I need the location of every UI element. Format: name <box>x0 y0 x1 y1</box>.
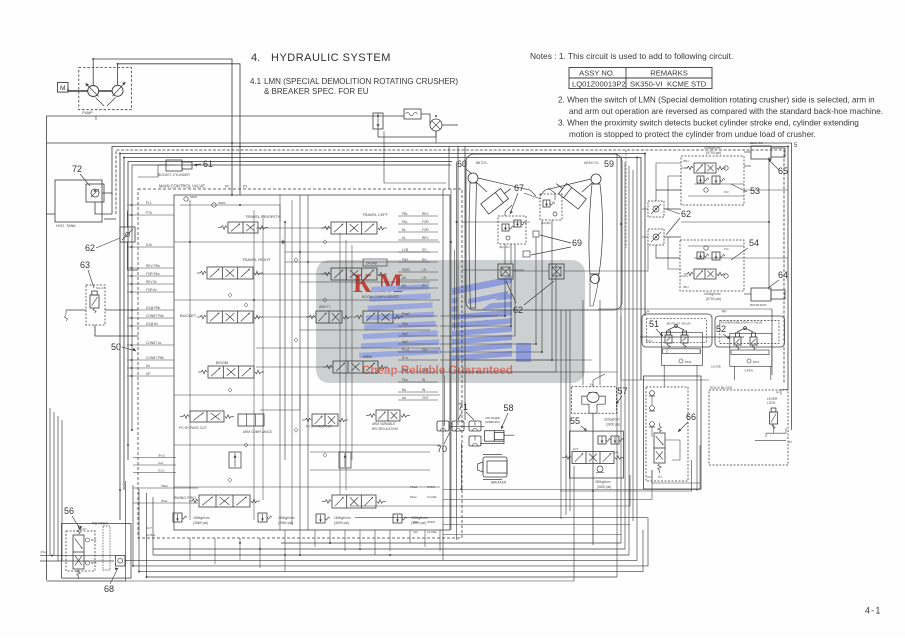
wire bottom bus group B <box>126 560 638 562</box>
svg-text:69: 69 <box>572 238 582 248</box>
valve swing spool DR34B <box>363 259 387 266</box>
svg-text:68: 68 <box>104 584 114 594</box>
svg-text:LH: LH <box>422 268 427 272</box>
solenoid block SOL/V <box>709 390 788 465</box>
svg-text:51: 51 <box>649 319 659 329</box>
svg-text:(Tu1): (Tu1) <box>158 469 165 473</box>
wire linkage cross braces <box>478 178 536 196</box>
valve crusher service spool <box>332 495 376 508</box>
svg-text:(A) Bu1: (A) Bu1 <box>146 533 156 537</box>
wire pump tank tick <box>95 116 97 120</box>
crusher pilot valve 52 outer <box>715 316 785 347</box>
svg-text:62: 62 <box>513 305 523 315</box>
svg-text:55: 55 <box>570 416 580 426</box>
spool valve in 55 <box>572 452 614 464</box>
svg-text:(5700 psi): (5700 psi) <box>706 297 721 301</box>
boom cylinder rod side 64 <box>751 288 771 301</box>
port check BC1 <box>86 538 90 542</box>
jib pilot valve 51 outer <box>642 314 712 347</box>
svg-text:3. When the proximity switch d: 3. When the proximity switch detects buc… <box>558 119 859 128</box>
wire 62 to bus <box>127 211 130 227</box>
svg-text:67: 67 <box>514 183 524 193</box>
svg-text:(P): (P) <box>788 440 792 444</box>
svg-text:SK350-VI: SK350-VI <box>630 79 663 88</box>
svg-text:350kgf/cm²: 350kgf/cm² <box>595 480 611 484</box>
svg-text:P4: P4 <box>658 475 662 479</box>
svg-text:AL: AL <box>402 236 406 240</box>
wire lines 53 54 to boom ports <box>744 189 788 191</box>
svg-text:ASSY NO.: ASSY NO. <box>579 69 615 78</box>
svg-text:(PA1): (PA1) <box>41 551 47 554</box>
svg-text:FOR Ar: FOR Ar <box>146 288 158 292</box>
svg-text:RH: RH <box>722 310 727 314</box>
gear pump 57 motor symbol <box>582 393 605 414</box>
holding valve block 67 right <box>540 194 562 220</box>
callout 60 leader <box>466 169 472 174</box>
svg-text:Aa2: Aa2 <box>402 332 408 336</box>
pilot valve 62 right lower <box>648 229 664 245</box>
svg-text:ARM CYL.: ARM CYL. <box>584 161 600 165</box>
svg-text:54: 54 <box>749 238 759 248</box>
hose fitting 69b <box>523 251 530 257</box>
svg-text:60: 60 <box>457 159 467 169</box>
svg-text:PAa2: PAa2 <box>410 495 417 499</box>
watermark building logo <box>371 284 429 292</box>
svg-text:PBL: PBL <box>402 212 408 216</box>
svg-text:CONBT PBb: CONBT PBb <box>146 356 164 360</box>
svg-text:ARM TJ: ARM TJ <box>319 305 331 309</box>
svg-text:Aa: Aa <box>402 396 406 400</box>
svg-text:UP: UP <box>146 372 150 376</box>
solenoid valve in 66 <box>654 423 665 473</box>
valve 63 solenoid accumulator block <box>86 285 105 325</box>
wire vertical channel left of block 66 <box>616 154 618 577</box>
breaker symbol <box>483 457 507 477</box>
crusher pilot valve 52 joysticks <box>737 328 753 332</box>
svg-text:PRa2: PRa2 <box>410 485 417 489</box>
svg-text:PBa1: PBa1 <box>161 484 168 488</box>
svg-text:BOOM: BOOM <box>216 360 228 365</box>
svg-text:FOR PAa: FOR PAa <box>146 272 160 276</box>
wire dashed pilot drop at 626 <box>625 150 627 248</box>
svg-text:PaaC: PaaC <box>402 312 411 316</box>
wire MCV internal verticals <box>457 146 459 420</box>
svg-text:58: 58 <box>504 403 514 413</box>
quick coupler 70 <box>437 421 449 431</box>
svg-text:BC 1: BC 1 <box>91 539 97 542</box>
svg-text:313: 313 <box>422 348 428 352</box>
valve arm variable recirculation <box>376 410 400 421</box>
svg-text:REV PBa: REV PBa <box>146 264 160 268</box>
svg-text:61: 61 <box>203 159 213 169</box>
jib cylinder body <box>481 184 515 215</box>
svg-text:RH: RH <box>422 284 427 288</box>
svg-text:BOOM ROD: BOOM ROD <box>750 303 768 307</box>
svg-text:400kgf/cm²: 400kgf/cm² <box>704 146 722 150</box>
svg-text:AS: AS <box>402 276 406 280</box>
svg-text:71: 71 <box>458 402 468 412</box>
quick coupler set 71 <box>452 421 464 431</box>
svg-text:5529: 5529 <box>685 360 692 364</box>
svg-text:LQ01Z00013P2: LQ01Z00013P2 <box>572 79 626 88</box>
svg-text:BS: BS <box>402 284 406 288</box>
bucket cylinder 61 <box>166 160 182 171</box>
wire pump discharge line 1 <box>93 59 232 195</box>
svg-text:REV: REV <box>422 236 429 240</box>
gear pump 57 box <box>572 387 617 414</box>
svg-text:(B1): (B1) <box>683 159 689 163</box>
wire vertical channel center <box>504 244 506 264</box>
svg-text:59: 59 <box>604 159 614 169</box>
svg-text:D1@ Bv: D1@ Bv <box>146 322 158 326</box>
linkage enclosure box <box>466 154 622 310</box>
svg-text:PAL: PAL <box>402 220 408 224</box>
svg-text:4-1: 4-1 <box>865 606 882 616</box>
svg-text:DELV 3/8: DELV 3/8 <box>750 141 763 145</box>
svg-text:(B1): (B1) <box>683 285 689 289</box>
wire top pilot bus lines <box>112 146 788 390</box>
svg-text:BUCKET: BUCKET <box>180 313 197 318</box>
hydraulic tank T1 <box>55 180 102 222</box>
svg-text:PAa: PAa <box>402 378 408 382</box>
accumulator block 66 <box>644 376 702 489</box>
svg-text:DM52: DM52 <box>218 201 226 205</box>
svg-text:JIB PILOT VALVE: JIB PILOT VALVE <box>666 321 691 325</box>
wire left MCV return stubs <box>133 457 176 459</box>
svg-text:LH: LH <box>422 276 427 280</box>
wire bottom left vertical drops <box>49 408 51 556</box>
svg-text:(3000 psi): (3000 psi) <box>334 521 349 525</box>
svg-text:BUCKET CYLINDER: BUCKET CYLINDER <box>158 173 190 177</box>
svg-text:PAa1: PAa1 <box>161 499 168 503</box>
svg-text:(A2)(B2): (A2)(B2) <box>541 221 551 225</box>
svg-text:52: 52 <box>716 324 726 334</box>
svg-text:& BREAKER SPEC. FOR EU: & BREAKER SPEC. FOR EU <box>264 87 369 96</box>
svg-text:TRAVEL LEFT: TRAVEL LEFT <box>362 212 389 217</box>
hose fitting 69a <box>533 231 539 237</box>
valve PC by-pass cut right <box>312 414 338 426</box>
valve 62 pilot shutoff left <box>120 227 135 242</box>
svg-text:D1b: D1b <box>146 243 152 247</box>
svg-text:LOCK: LOCK <box>767 401 777 405</box>
svg-text:PC BY-PASS CUT: PC BY-PASS CUT <box>306 425 332 429</box>
wire couplers to crusher <box>449 426 485 428</box>
relief valve swing B <box>258 513 267 522</box>
check valves in 66 <box>650 391 655 396</box>
wire bottom left risers <box>125 481 127 581</box>
svg-text:DM51: DM51 <box>190 195 198 199</box>
svg-text:PL0: PL0 <box>724 190 729 194</box>
relief valve swing A <box>173 513 182 522</box>
holding valve block 67 left <box>498 216 526 244</box>
svg-text:OPEN: OPEN <box>427 485 435 489</box>
svg-text:OPEN: OPEN <box>427 520 435 524</box>
svg-text:BC 5: BC 5 <box>91 562 97 565</box>
wire boom cylinder lines <box>744 165 751 167</box>
svg-text:MAIN CONTROL VALVE: MAIN CONTROL VALVE <box>159 184 205 189</box>
svg-text:PBa: PBa <box>402 368 408 372</box>
holding valve block 54 <box>680 240 744 291</box>
svg-text:CONBT Av: CONBT Av <box>146 341 162 345</box>
svg-text:180kgf/cm²: 180kgf/cm² <box>334 516 352 520</box>
svg-text:PC BY-PASS CUT: PC BY-PASS CUT <box>179 426 207 430</box>
svg-text:7a2: 7a2 <box>413 530 418 534</box>
wire MCV pilot port stubs left <box>127 204 174 206</box>
wire vertical channel right of MCV <box>456 162 458 541</box>
svg-text:72: 72 <box>72 164 82 174</box>
svg-text:SOL/V BLOCK: SOL/V BLOCK <box>710 386 733 390</box>
svg-text:64: 64 <box>778 270 788 280</box>
arm link member <box>589 184 603 274</box>
wire open close pilot lines <box>443 445 700 490</box>
check valve DM52 <box>212 203 216 207</box>
port check BC5 <box>86 561 90 565</box>
wire 63 connections <box>95 325 138 336</box>
wire MCV internal horizontals <box>174 241 440 243</box>
wire pump 57 outlet <box>592 413 594 545</box>
wire 56 ports <box>40 555 116 557</box>
svg-text:LMN (SPECIAL DEMOLITION ROTATI: LMN (SPECIAL DEMOLITION ROTATING CRUSHER… <box>264 77 458 86</box>
wire pump discharge line 2 <box>118 64 240 195</box>
check valve DM51 <box>184 197 188 201</box>
svg-text:(Pu1): (Pu1) <box>158 454 165 458</box>
pump P1 double gear pump <box>79 68 132 110</box>
wire schematic frame right <box>791 143 793 430</box>
svg-text:REV Br: REV Br <box>146 280 158 284</box>
svg-text:TRAVEL RIGHT: TRAVEL RIGHT <box>242 257 271 262</box>
svg-text:CLOSE: CLOSE <box>711 365 721 369</box>
svg-text:65: 65 <box>778 166 788 176</box>
wire relief to cooler <box>383 115 404 117</box>
svg-text:70: 70 <box>437 444 447 454</box>
svg-text:(5000 psi): (5000 psi) <box>597 485 611 489</box>
svg-text:PAS2: PAS2 <box>402 268 410 272</box>
svg-text:D1@ PBb: D1@ PBb <box>146 306 160 310</box>
svg-text:P1: P1 <box>243 185 247 189</box>
assy table <box>569 68 712 89</box>
svg-text:TRAVEL PRIORITY: TRAVEL PRIORITY <box>245 214 280 219</box>
svg-text:B+a: B+a <box>402 356 408 360</box>
valve 72 suction strainer <box>86 184 104 202</box>
svg-text:Dn: Dn <box>146 364 150 368</box>
svg-text:PC: PC <box>225 185 230 189</box>
svg-text:and arm out operation are reve: and arm out operation are reversed as co… <box>569 107 883 116</box>
svg-text:OUT: OUT <box>422 396 429 400</box>
svg-text:PL0: PL0 <box>724 247 729 251</box>
svg-text:M: M <box>60 85 65 92</box>
svg-text:62: 62 <box>85 243 95 253</box>
wire tank connections <box>95 202 112 214</box>
wire MCV right port stubs <box>398 215 438 217</box>
wire right mid horizontals <box>560 460 692 491</box>
junction diamonds <box>281 240 285 244</box>
svg-text:FOR: FOR <box>422 228 429 232</box>
arm cylinder pivot <box>591 174 601 184</box>
svg-text:REMARKS: REMARKS <box>650 69 688 78</box>
svg-text:400kgf/cm²: 400kgf/cm² <box>704 292 722 296</box>
svg-text:OUT: OUT <box>146 526 152 530</box>
line filter F1 <box>47 115 383 117</box>
svg-text:BL: BL <box>402 228 406 232</box>
check valve center MCV <box>229 452 241 468</box>
valve arm compliance <box>238 414 264 426</box>
svg-text:Ab2: Ab2 <box>402 340 408 344</box>
holding valve block 53 <box>681 156 744 205</box>
svg-text:HYDRAULIC SYSTEM: HYDRAULIC SYSTEM <box>271 52 391 64</box>
svg-text:CONBT PAb: CONBT PAb <box>146 314 164 318</box>
check valve center MCV right half <box>339 452 351 468</box>
wire boom cylinder risers <box>768 157 770 290</box>
svg-text:PL1: PL1 <box>146 201 152 205</box>
svg-text:(2560 psi): (2560 psi) <box>193 521 208 525</box>
svg-text:Notes : 1. This circuit is us: Notes : 1. This circuit is used to add t… <box>530 51 733 61</box>
svg-text:310kgf/cm²: 310kgf/cm² <box>604 418 620 422</box>
proximity switch 62 left <box>498 264 513 279</box>
svg-text:(3000 psi): (3000 psi) <box>606 423 620 427</box>
jib pilot valve 51 joysticks <box>668 326 684 330</box>
svg-text:FOR: FOR <box>422 220 429 224</box>
svg-text:REV: REV <box>422 212 429 216</box>
check valve in 55 <box>597 466 603 472</box>
svg-text:63: 63 <box>80 260 90 270</box>
svg-text:LH: LH <box>645 310 650 314</box>
svg-text:BREAKER: BREAKER <box>491 481 507 485</box>
svg-text:SVB: SVB <box>613 451 619 455</box>
svg-text:180kgf/cm²: 180kgf/cm² <box>193 516 211 520</box>
svg-text:CLOSE: CLOSE <box>427 495 437 499</box>
svg-text:(NIBBLER): (NIBBLER) <box>485 420 500 424</box>
svg-text:SWING PRIO: SWING PRIO <box>174 496 196 500</box>
p/b timer valve 56 <box>66 531 95 571</box>
svg-text:LCB: LCB <box>402 248 408 252</box>
svg-text:2. When the switch of LMN (Spe: 2. When the switch of LMN (Special demol… <box>558 96 875 105</box>
wire MCV bottom port lines <box>189 538 191 560</box>
svg-text:Au2: Au2 <box>158 461 163 465</box>
jib cylinder pivot <box>468 173 478 183</box>
svg-text:5611: 5611 <box>753 360 759 364</box>
svg-text:62: 62 <box>681 209 691 219</box>
cooler C1 circle <box>430 119 442 131</box>
svg-text:66: 66 <box>686 412 696 422</box>
svg-text:PB1: PB1 <box>402 322 408 326</box>
svg-text:ARM: ARM <box>363 354 372 359</box>
wire verticals near pump 57 <box>582 300 584 385</box>
orifice 68 <box>116 556 126 567</box>
relief valve RV1 top <box>373 113 383 129</box>
wire 66 internals <box>651 396 653 405</box>
svg-text:HYD. TANK: HYD. TANK <box>56 224 76 228</box>
svg-text:ARM VARIABLE: ARM VARIABLE <box>372 422 395 426</box>
svg-text:SH-17: SH-17 <box>96 286 105 290</box>
wire bucket cylinder 61 connection <box>138 165 174 177</box>
svg-text:Ba: Ba <box>402 388 406 392</box>
wire nested corner bottom right <box>126 466 575 581</box>
proximity switch 62 right <box>549 264 564 279</box>
relief valve arm A <box>316 514 325 523</box>
svg-text:ARM COMPLIANCE: ARM COMPLIANCE <box>243 430 272 434</box>
svg-text:CLOSE: CLOSE <box>427 530 437 534</box>
svg-text:RECIRCULATION: RECIRCULATION <box>372 427 398 431</box>
breaker selector valve 55 box <box>570 431 624 478</box>
wire schematic frame top <box>46 116 48 580</box>
p/b timer group 56 outer box <box>62 524 132 579</box>
svg-text:PLc2: PLc2 <box>402 348 409 352</box>
svg-text:(5700 psi): (5700 psi) <box>706 151 721 155</box>
svg-text:(B1) (A1): (B1) (A1) <box>499 245 510 249</box>
svg-text:50: 50 <box>111 342 121 352</box>
svg-text:3a2: 3a2 <box>413 520 418 524</box>
svg-text:EVT: EVT <box>573 447 579 451</box>
svg-text:PBS: PBS <box>402 258 408 262</box>
wire pilot group bottom line <box>621 379 709 381</box>
svg-text:К М: К М <box>353 269 403 298</box>
svg-text:PTb: PTb <box>146 211 152 215</box>
motor M1 <box>58 82 69 92</box>
svg-text:OUT: OUT <box>422 368 429 372</box>
watermark KM background <box>316 260 585 383</box>
p/b timer element <box>103 526 110 570</box>
svg-text:A4: A4 <box>647 475 651 479</box>
svg-text:P/B TIMER: P/B TIMER <box>92 522 109 526</box>
relief valves in 55 <box>598 436 606 444</box>
jib link member <box>469 183 476 308</box>
arm cylinder body <box>552 179 586 210</box>
wire pilot valve drops <box>663 365 665 387</box>
wire mid horizontal links <box>462 221 530 223</box>
wire MCV mesh verticals <box>189 200 191 520</box>
svg-text:SG: SG <box>422 248 427 252</box>
svg-text:4.: 4. <box>251 52 260 64</box>
svg-text:PUMP: PUMP <box>82 111 93 115</box>
svg-text:OPEN: OPEN <box>744 368 753 372</box>
pilot valve 62 right upper <box>648 201 664 217</box>
svg-text:4.1: 4.1 <box>250 77 262 86</box>
wire bottom bus group A <box>281 542 621 544</box>
svg-text:53: 53 <box>750 186 760 196</box>
svg-text:56: 56 <box>64 506 74 516</box>
svg-text:180kgf/cm²: 180kgf/cm² <box>278 516 296 520</box>
svg-text:JIB CYL.: JIB CYL. <box>475 161 488 165</box>
svg-text:Cheap Reliable Guaranteed: Cheap Reliable Guaranteed <box>362 363 513 377</box>
relief valve arm B <box>393 514 402 523</box>
svg-text:RH: RH <box>422 258 427 262</box>
wire sol/v to corner <box>781 389 788 395</box>
valve PC by-pass cut left <box>190 411 224 422</box>
svg-text:KCME STD: KCME STD <box>667 79 707 88</box>
svg-text:A1: A1 <box>776 390 780 394</box>
svg-text:57: 57 <box>618 386 628 396</box>
svg-text:motion is stopped to protect t: motion is stopped to protect the cylinde… <box>569 130 816 139</box>
svg-text:BOOM CONFLUENCE: BOOM CONFLUENCE <box>362 295 399 299</box>
